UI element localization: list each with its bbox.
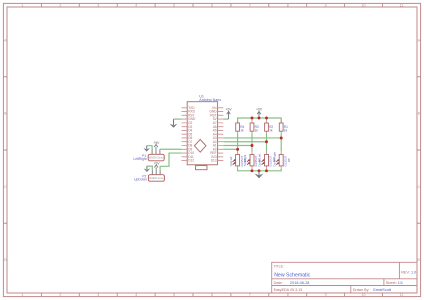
connector P1 LeftRight xyxy=(148,149,164,161)
svg-text:2: 2 xyxy=(59,4,61,8)
svg-text:8: 8 xyxy=(287,293,289,297)
svg-text:3: 3 xyxy=(97,293,99,297)
wire P2 signal to U1.D10 xyxy=(160,153,181,170)
svg-text:Sheet: 1/1: Sheet: 1/1 xyxy=(386,281,403,285)
junction node A0 xyxy=(236,148,239,151)
svg-text:New Schematic: New Schematic xyxy=(274,272,310,278)
IC U1 Arduino Nano body xyxy=(187,102,217,165)
svg-text:Drawn By:: Drawn By: xyxy=(353,288,370,292)
svg-text:8: 8 xyxy=(287,4,289,8)
ground symbol at P1 xyxy=(146,146,148,149)
junction node A2 xyxy=(265,140,268,143)
ground rail under LDRs xyxy=(238,169,282,171)
svg-text:11: 11 xyxy=(400,4,404,8)
svg-text:+5V: +5V xyxy=(154,161,161,165)
junction node A3 xyxy=(280,137,283,140)
junction node A1 xyxy=(251,144,254,147)
+5V power flag at P1 xyxy=(154,145,158,150)
svg-text:UpDown: UpDown xyxy=(134,178,147,182)
ground symbol at P2 xyxy=(146,166,148,169)
svg-text:11: 11 xyxy=(400,293,404,297)
svg-text:C: C xyxy=(4,185,7,189)
wire U1.A1 to divider node xyxy=(223,145,252,147)
svg-text:9: 9 xyxy=(325,293,327,297)
+5V rail above resistors xyxy=(238,118,282,123)
photoresistor R5 DownRight xyxy=(272,151,290,169)
svg-text:EasyEDA V5.3.15: EasyEDA V5.3.15 xyxy=(274,288,303,292)
wire P1 pin1 to ground xyxy=(147,146,152,150)
resistor R2 1k xyxy=(265,120,274,135)
svg-text:+5V: +5V xyxy=(256,108,263,112)
U1 diamond mark xyxy=(194,139,206,152)
svg-text:MG90S Servo: MG90S Servo xyxy=(149,157,164,160)
U1 pin stubs xyxy=(182,108,224,161)
wire R2 to LDR column 3 xyxy=(266,134,268,151)
svg-text:DownLeft: DownLeft xyxy=(258,154,262,167)
resistor R3 1k xyxy=(250,120,259,135)
svg-text:GreatScott: GreatScott xyxy=(373,288,392,292)
title block frame xyxy=(272,262,417,293)
wire U1.A2 to divider node xyxy=(223,141,266,143)
svg-text:D: D xyxy=(4,258,7,262)
svg-text:TITLE:: TITLE: xyxy=(274,265,284,269)
svg-text:MG90S Servo: MG90S Servo xyxy=(149,177,164,180)
ground symbol near U1 xyxy=(173,119,175,125)
svg-text:5: 5 xyxy=(173,4,175,8)
svg-text:+5V: +5V xyxy=(153,141,160,145)
frame column ticks and numbers xyxy=(41,4,382,297)
svg-text:C: C xyxy=(417,185,420,189)
svg-text:7: 7 xyxy=(249,293,251,297)
svg-text:Date:: Date: xyxy=(274,281,283,285)
resistor R1 1k xyxy=(279,120,288,135)
wire R1 to LDR column 4 xyxy=(280,134,282,151)
wire R4 to LDR column 1 xyxy=(237,134,239,151)
+5V power flag on rail xyxy=(257,111,261,118)
svg-text:10: 10 xyxy=(362,293,366,297)
svg-text:6: 6 xyxy=(211,4,213,8)
+5V power flag at P2 xyxy=(154,165,158,170)
svg-text:D: D xyxy=(417,258,420,262)
junction dots on +5V rail xyxy=(251,117,254,120)
svg-text:1k: 1k xyxy=(269,129,273,133)
svg-text:TopRight: TopRight xyxy=(243,154,247,166)
svg-text:4: 4 xyxy=(135,293,137,297)
svg-text:1: 1 xyxy=(21,293,23,297)
junction dots on ground rail xyxy=(251,169,254,172)
svg-text:TopLeft: TopLeft xyxy=(229,156,233,166)
svg-text:LeftRight: LeftRight xyxy=(133,157,146,161)
wire U1.A0 to divider node xyxy=(223,148,237,150)
wire U1.A3 to divider node xyxy=(223,137,281,139)
frame row ticks and letters xyxy=(4,77,421,224)
svg-text:R5: R5 xyxy=(287,158,291,162)
svg-text:1k: 1k xyxy=(284,129,288,133)
svg-text:DownRight: DownRight xyxy=(272,152,276,167)
svg-text:2018-06-28: 2018-06-28 xyxy=(290,281,309,285)
svg-text:2: 2 xyxy=(59,293,61,297)
svg-text:6: 6 xyxy=(211,293,213,297)
resistor R4 1k xyxy=(236,120,245,135)
U1 usb connector box xyxy=(196,166,208,170)
svg-text:REV: 1.0: REV: 1.0 xyxy=(401,270,416,274)
photoresistor R6 DownLeft xyxy=(258,151,276,169)
wire U1.5V to +5V xyxy=(223,118,228,120)
svg-text:1k: 1k xyxy=(255,129,259,133)
svg-text:D13: D13 xyxy=(211,159,217,163)
wire P2 pin1 to ground xyxy=(147,166,152,170)
connector P2 UpDown xyxy=(148,169,164,181)
ground symbol under LDR rail xyxy=(258,171,260,175)
svg-text:4: 4 xyxy=(135,4,137,8)
svg-text:3: 3 xyxy=(97,4,99,8)
svg-text:D12: D12 xyxy=(188,159,194,163)
photoresistor R8 TopLeft xyxy=(229,151,247,169)
wire U1.GND to ground xyxy=(174,118,182,120)
svg-text:5: 5 xyxy=(173,293,175,297)
svg-text:7: 7 xyxy=(249,4,251,8)
svg-text:1k: 1k xyxy=(240,129,244,133)
svg-text:+5V: +5V xyxy=(226,108,233,112)
svg-text:10: 10 xyxy=(362,4,366,8)
wire P1 signal to U1.D9 xyxy=(160,148,182,150)
svg-text:9: 9 xyxy=(325,4,327,8)
photoresistor R7 TopRight xyxy=(243,151,261,169)
svg-text:1: 1 xyxy=(21,4,23,8)
wire R3 to LDR column 2 xyxy=(251,134,253,151)
+5V power flag near U1 xyxy=(227,111,231,119)
